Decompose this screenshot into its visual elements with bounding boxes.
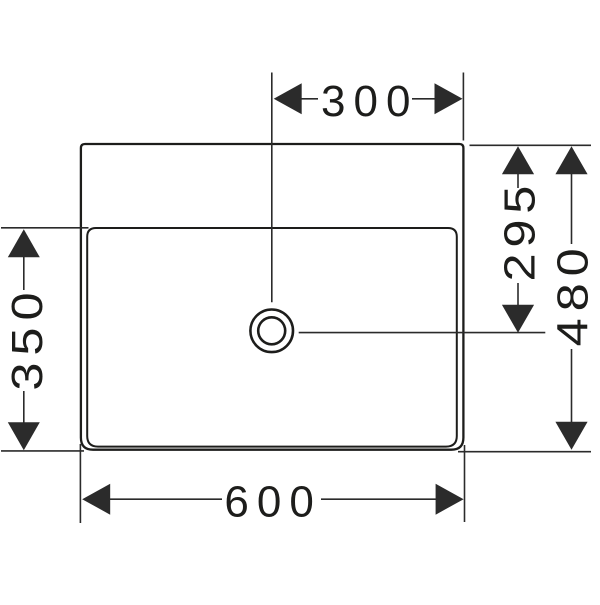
dim line 350 lower segment (23, 391, 25, 423)
extension line 600 right (464, 445, 466, 522)
extension line 350 top (1, 227, 89, 229)
dim line 300 right segment (412, 98, 436, 100)
dim line 295 upper segment (517, 173, 519, 188)
arrow 350 up (8, 229, 40, 257)
svg-text:480: 480 (549, 241, 598, 346)
basin inner bowl (87, 228, 457, 447)
extension line bottom right (480) (458, 451, 591, 453)
extension line right of 300 (462, 73, 464, 141)
extension line top right (295/480) (470, 144, 592, 146)
arrow 480 down (555, 422, 587, 450)
dim line 300 left segment (301, 98, 319, 100)
dim line 350 upper segment (23, 256, 25, 290)
svg-text:300: 300 (321, 77, 418, 126)
arrow 350 down (8, 422, 40, 450)
svg-text:600: 600 (224, 477, 321, 526)
drain inner circle (258, 317, 285, 344)
extension line 350 bottom (1, 450, 84, 452)
dim line 295 lower segment (517, 283, 519, 306)
dim line 600 left segment (109, 498, 222, 500)
svg-text:350: 350 (3, 285, 52, 390)
arrow 295 up (502, 146, 534, 174)
arrow 480 up (555, 146, 587, 174)
arrow 295 down (502, 305, 534, 333)
drain outer circle (250, 310, 293, 353)
basin outer rim (81, 144, 464, 450)
arrow 300 left (274, 83, 302, 114)
dim line 480 upper segment (571, 173, 573, 244)
drain reference line (299, 332, 546, 334)
svg-text:295: 295 (495, 180, 544, 282)
center line (271, 73, 273, 303)
arrow 600 left (82, 484, 110, 515)
extension line 600 left (79, 444, 81, 523)
dim line 480 lower segment (571, 349, 573, 423)
arrow 600 right (436, 484, 464, 515)
dim line 600 right segment (321, 498, 437, 500)
arrow 300 right (435, 83, 463, 114)
